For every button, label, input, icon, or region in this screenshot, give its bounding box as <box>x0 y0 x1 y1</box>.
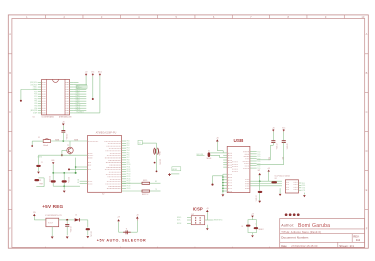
title block date row <box>281 244 354 248</box>
power flag +5V <box>85 72 88 76</box>
IC1 right pins <box>65 82 73 113</box>
wires lower rows to IC2 <box>77 179 87 184</box>
svg-text:C9 100n: C9 100n <box>255 196 257 202</box>
ground arrow below IC5 right <box>303 193 306 198</box>
svg-text:Bomi Garuba: Bomi Garuba <box>298 223 330 229</box>
svg-text:PD16: PD16 <box>127 178 131 180</box>
svg-text:PD13: PD13 <box>127 171 131 173</box>
svg-text:+5V: +5V <box>62 121 65 123</box>
IC2 body <box>88 136 122 193</box>
svg-text:D: D <box>9 149 11 153</box>
wire GND rows to IC2 <box>69 166 88 169</box>
junction dot fuse input <box>31 145 33 147</box>
net label box AREF <box>171 167 181 174</box>
svg-text:VUSB: VUSB <box>55 139 59 141</box>
IC5 body <box>285 180 298 193</box>
svg-text:C2 100u: C2 100u <box>67 177 69 183</box>
frame row ticks and letters <box>8 32 368 231</box>
wire transistor base <box>62 150 67 155</box>
IC4 left pins upper <box>223 153 232 168</box>
wire IC3 output <box>59 219 74 221</box>
svg-text:PB1: PB1 <box>34 101 37 103</box>
svg-text:16MHz: 16MHz <box>158 151 160 156</box>
junction dot 3V3 net <box>259 180 261 182</box>
capacitor C7 <box>257 132 277 161</box>
svg-text:PD6: PD6 <box>34 94 37 96</box>
svg-text:B: B <box>366 71 368 75</box>
wire selector right arm <box>119 221 138 233</box>
junction dot red net <box>68 168 70 170</box>
capacitor C6 <box>65 220 71 239</box>
svg-text:PD3: PD3 <box>127 148 130 150</box>
junction dot regulator output <box>66 219 68 221</box>
IC1 DIP body <box>42 79 70 115</box>
svg-text:27/02/2012 15:45:00: 27/02/2012 15:45:00 <box>291 244 318 248</box>
voltage regulator IC3 <box>45 215 62 227</box>
ICSP header SV1 <box>191 214 204 225</box>
IC4 left pins lower with gnd bus <box>222 174 232 194</box>
IC5 right pins with labels <box>299 183 307 192</box>
ICSP left wires with labels <box>177 217 191 225</box>
svg-text:TITLE: Arduino Nano (Rev3.0): TITLE: Arduino Nano (Rev3.0) <box>281 230 321 234</box>
svg-text:Sheet: 1/1: Sheet: 1/1 <box>339 244 354 248</box>
svg-text:T1: T1 <box>126 228 128 230</box>
svg-text:PD11: PD11 <box>127 167 131 169</box>
svg-text:RN1C 1K: RN1C 1K <box>142 194 148 196</box>
title block document row <box>281 234 360 241</box>
svg-text:IC3 MC33269ST-5.0T3: IC3 MC33269ST-5.0T3 <box>45 215 62 217</box>
IC1 left pins and net labels <box>30 82 46 115</box>
power flag VCC <box>91 72 95 76</box>
svg-text:(RESET)PC6: (RESET)PC6 <box>213 220 222 222</box>
IC2 right pins with net labels <box>104 141 130 190</box>
svg-text:3V3: 3V3 <box>302 183 305 185</box>
svg-text:ICSP: ICSP <box>193 207 203 212</box>
capacitor C2 100u <box>62 173 70 186</box>
IC4 right pins <box>243 151 262 170</box>
svg-text:PD19: PD19 <box>127 185 131 187</box>
svg-text:RESET: RESET <box>77 87 82 89</box>
svg-text:C1 100u: C1 100u <box>48 176 50 182</box>
IC4 lower right pin rows to IC5 <box>245 179 282 188</box>
IC2 left pin names <box>88 141 98 184</box>
power flag above button S1 <box>251 214 254 220</box>
IC4 FT232RL body <box>227 146 250 192</box>
svg-text:(MISO)PB: (MISO)PB <box>30 110 37 112</box>
svg-text:PB0: PB0 <box>34 98 37 100</box>
IC4 pin names inside <box>232 162 238 172</box>
svg-text:PD10: PD10 <box>127 164 131 166</box>
svg-text:C: C <box>366 110 368 114</box>
svg-text:PD6: PD6 <box>127 155 130 157</box>
svg-text:X1: X1 <box>208 150 210 152</box>
svg-text:E: E <box>9 188 11 192</box>
ground arrow ICSP <box>206 225 209 231</box>
svg-text:S1: S1 <box>241 226 243 228</box>
svg-text:Q1: Q1 <box>139 143 141 145</box>
title block author row <box>281 223 330 229</box>
svg-text:RX: RX <box>155 181 157 183</box>
ground arrow below IC4 left <box>222 194 225 196</box>
svg-text:PD15: PD15 <box>127 176 131 178</box>
title block outline <box>280 219 365 248</box>
junction dot USBVCC <box>211 184 213 186</box>
capacitor C9 <box>255 181 263 203</box>
svg-text:+5V: +5V <box>117 217 120 219</box>
capacitor C8 <box>257 132 288 165</box>
svg-text:PD5: PD5 <box>34 91 37 93</box>
USB connector X1 <box>197 150 212 160</box>
end dot IC1 left net <box>20 100 22 102</box>
capacitor C2 chain <box>86 220 92 238</box>
power flag VCC cap pair right <box>282 127 286 131</box>
junction dot on resonator net <box>154 162 156 164</box>
ground hang symbol <box>51 160 54 173</box>
svg-text:B: B <box>9 71 11 75</box>
power flag +5V selector left <box>117 217 120 222</box>
wires USB data lines <box>210 153 223 158</box>
svg-text:PD4: PD4 <box>127 150 130 152</box>
svg-text:+5V: +5V <box>206 208 209 210</box>
junction dot base net <box>61 154 63 156</box>
ground arrow below IC5 left <box>279 188 282 196</box>
svg-text:T2: T2 <box>67 145 69 147</box>
svg-text:+5V REG: +5V REG <box>42 204 63 209</box>
svg-text:(RXD)PD0: (RXD)PD0 <box>30 82 37 84</box>
power flag VIN regulator <box>33 212 36 216</box>
logo dots <box>285 213 300 216</box>
svg-text:+5V: +5V <box>267 168 270 170</box>
svg-text:PD20: PD20 <box>127 188 131 190</box>
fuse F1 <box>38 137 50 147</box>
ICSP right wire and label <box>205 220 223 222</box>
svg-text:C4 100n: C4 100n <box>159 159 161 165</box>
svg-text:E: E <box>366 188 368 192</box>
switch S1 body <box>241 220 263 233</box>
junction dot on VUSB net <box>62 140 64 142</box>
resistor RN1D <box>122 180 161 184</box>
svg-text:PD7: PD7 <box>127 157 130 159</box>
capacitor C3 column <box>61 121 66 141</box>
svg-text:MOSI: MOSI <box>177 223 182 225</box>
wire VUSB net to IC2 <box>51 139 88 141</box>
svg-text:PD1: PD1 <box>127 143 130 145</box>
svg-text:PB3: PB3 <box>34 105 37 107</box>
svg-text:+5V: +5V <box>136 214 139 216</box>
svg-text:PD12: PD12 <box>127 169 131 171</box>
wire IC1 left net with end dot <box>21 89 38 100</box>
power flag 3V3OUT <box>257 170 261 181</box>
capacitor rail top <box>53 172 75 174</box>
svg-text:RESET: RESET <box>259 229 264 231</box>
ground IC3 tab <box>51 227 54 239</box>
svg-text:C: C <box>9 110 11 114</box>
power flag +5V selector right <box>136 214 139 220</box>
svg-text:PB2: PB2 <box>34 103 37 105</box>
capacitor C1 100u <box>48 173 56 186</box>
net label box DTR <box>77 86 88 89</box>
svg-text:ATMEGA328P-PU: ATMEGA328P-PU <box>96 131 117 134</box>
svg-text:TX: TX <box>155 189 157 191</box>
svg-text:AREF: AREF <box>173 168 178 171</box>
svg-text:C1: C1 <box>41 162 43 164</box>
wire fuse input <box>32 141 43 145</box>
transistor T2 <box>67 141 73 155</box>
wire long net to IC2 row <box>38 155 88 158</box>
svg-text:PD8: PD8 <box>127 159 130 161</box>
ground arrow capacitor rail <box>63 186 66 193</box>
junction dot on VCC net <box>92 98 94 100</box>
svg-text:USB: USB <box>234 138 245 143</box>
svg-text:D: D <box>366 149 368 153</box>
svg-text:VUSB: VUSB <box>74 139 78 141</box>
svg-text:PD17: PD17 <box>127 181 131 183</box>
wire rail to IC2 vertical <box>75 158 77 174</box>
wire end dot <box>156 171 158 173</box>
svg-text:C2 100u: C2 100u <box>90 231 92 237</box>
power flag ICSP +5V <box>206 208 209 220</box>
power flag VCC mid <box>267 168 270 181</box>
capacitor C1 hang chain <box>36 155 43 174</box>
power flag VCC USB left <box>216 138 223 153</box>
svg-text:PD7: PD7 <box>34 96 37 98</box>
svg-text:IC2: IC2 <box>102 194 105 196</box>
svg-text:C7 100n: C7 100n <box>275 144 277 150</box>
power flag AVCC <box>98 71 103 76</box>
resonator Q1 <box>154 148 160 156</box>
power rail VCC vertical wires <box>86 76 100 113</box>
svg-text:PD0: PD0 <box>127 141 130 143</box>
svg-text:PD5: PD5 <box>127 152 130 154</box>
svg-text:A: A <box>366 32 368 36</box>
power flag VCC cap pair left <box>272 127 275 131</box>
svg-text:D1: D1 <box>75 215 77 217</box>
wire USBVCC net <box>213 176 223 184</box>
svg-text:GND: GND <box>51 160 54 162</box>
svg-text:+5V: +5V <box>251 214 254 216</box>
mosfet T1 <box>123 228 131 234</box>
svg-text:Date:: Date: <box>281 245 287 248</box>
svg-text:IN OUT: IN OUT <box>48 223 53 225</box>
svg-text:PD9: PD9 <box>127 162 130 164</box>
svg-text:F1: F1 <box>38 137 40 139</box>
svg-text:A: A <box>9 32 11 36</box>
svg-text:C3 100n: C3 100n <box>65 134 67 140</box>
net label box XTAL wire <box>138 140 157 171</box>
svg-text:+5V: +5V <box>85 72 88 74</box>
svg-text:PD2(INT0): PD2(INT0) <box>77 112 85 114</box>
resistor R1 <box>271 178 277 184</box>
svg-text:Author:: Author: <box>281 224 294 228</box>
svg-text:IC1: IC1 <box>33 116 36 118</box>
ground arrow below S1 <box>251 233 254 238</box>
svg-text:3v2: 3v2 <box>356 238 361 242</box>
svg-text:PD2: PD2 <box>127 145 130 147</box>
wire VIN to IC3 <box>34 217 46 220</box>
svg-text:PD14: PD14 <box>127 174 131 176</box>
svg-text:REV:: REV: <box>353 234 359 238</box>
svg-text:C8 100n: C8 100n <box>285 144 287 150</box>
svg-text:X2: X2 <box>40 180 42 182</box>
power jack X2 loop <box>34 178 44 187</box>
svg-text:MISO: MISO <box>177 217 182 219</box>
svg-text:R1: R1 <box>275 178 277 180</box>
junction dots capacitor rails <box>52 172 65 187</box>
svg-text:3V3: 3V3 <box>257 170 260 172</box>
svg-text:+5V AUTO. SELECTOR: +5V AUTO. SELECTOR <box>97 238 146 242</box>
svg-text:Document Number:: Document Number: <box>281 236 309 240</box>
svg-text:MINI-B: MINI-B <box>207 158 212 160</box>
svg-text:(TXD)PD1: (TXD)PD1 <box>30 84 37 86</box>
svg-text:C6 100n: C6 100n <box>69 227 71 233</box>
diode D1 <box>75 215 88 222</box>
svg-text:PB4: PB4 <box>34 108 37 110</box>
capacitor rail bottom <box>53 185 80 187</box>
resistor RN1C <box>122 189 161 196</box>
svg-text:PWR: PWR <box>40 183 43 185</box>
IC1 right side wires <box>73 82 100 113</box>
junction cross <box>168 173 171 176</box>
